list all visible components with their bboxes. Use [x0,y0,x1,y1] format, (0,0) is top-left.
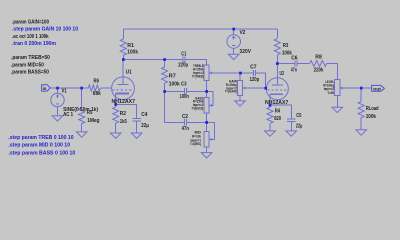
svg-text:100n: 100n [180,94,189,100]
svg-text:R2: R2 [120,111,126,117]
svg-text:120p: 120p [250,77,260,83]
svg-text:AC 1: AC 1 [63,112,73,118]
svg-text:22µ: 22µ [296,124,302,130]
svg-text:V2: V2 [240,30,246,36]
svg-text:C3: C3 [181,82,187,88]
svg-text:.step param GAIN 10 100 10: .step param GAIN 10 100 10 [12,27,78,33]
svg-text:100k: 100k [366,114,376,120]
svg-text:R3: R3 [283,43,289,49]
svg-text:.step param MID 0 100 10: .step param MID 0 100 10 [8,143,70,149]
svg-text:.step param BASS 0 100 10: .step param BASS 0 100 10 [8,151,75,157]
svg-text:220p: 220p [178,62,188,68]
svg-text:R6: R6 [94,78,100,84]
svg-text:220k: 220k [314,68,324,74]
svg-text:100k: 100k [169,82,180,88]
svg-text:C1: C1 [181,52,186,58]
svg-text:1k5: 1k5 [120,119,127,125]
svg-text:R1: R1 [127,43,134,49]
svg-text:U1: U1 [126,70,132,76]
svg-text:47n: 47n [182,126,189,132]
svg-text:T={BASS}: T={BASS} [191,107,204,111]
svg-text:C6: C6 [291,56,297,62]
svg-text:C5: C5 [296,113,301,119]
svg-text:.step param TREB 0 100 10: .step param TREB 0 100 10 [8,135,74,141]
svg-text:.param GAIN=100: .param GAIN=100 [12,20,49,26]
svg-text:RLoad: RLoad [366,106,379,112]
svg-text:R5: R5 [87,110,93,116]
svg-text:1Meg: 1Meg [87,118,99,124]
svg-text:68k: 68k [93,91,101,97]
svg-text:NH12AX7: NH12AX7 [265,100,289,106]
svg-text:V1: V1 [62,89,67,95]
svg-text:R4: R4 [275,109,281,115]
svg-text:22µ: 22µ [141,123,149,129]
svg-text:320V: 320V [240,49,252,55]
svg-text:.param TREB=50: .param TREB=50 [11,55,50,61]
svg-text:100k: 100k [127,49,138,55]
svg-text:out: out [373,86,381,91]
svg-text:T=50: T=50 [327,91,334,95]
svg-text:R7: R7 [169,74,176,80]
svg-text:T={GAIN}: T={GAIN} [225,90,238,94]
svg-text:C4: C4 [141,112,147,118]
svg-text:820: 820 [274,116,281,122]
svg-text:R8: R8 [315,55,322,61]
svg-text:.param BASS=50: .param BASS=50 [11,70,49,76]
svg-text:47n: 47n [291,68,297,74]
svg-text:C2: C2 [182,114,188,120]
svg-text:.ac oct 100 1 100k: .ac oct 100 1 100k [12,34,49,40]
svg-text:.tran 0 200m 190m: .tran 0 200m 190m [12,41,57,47]
svg-text:T={MID}: T={MID} [190,142,202,146]
svg-text:C7: C7 [250,64,257,70]
svg-text:T={TREB}: T={TREB} [192,75,205,79]
svg-text:in: in [43,86,47,91]
svg-text:U2: U2 [280,71,285,77]
svg-text:.param MID=50: .param MID=50 [11,62,44,68]
svg-text:NH12AX7: NH12AX7 [112,99,136,105]
